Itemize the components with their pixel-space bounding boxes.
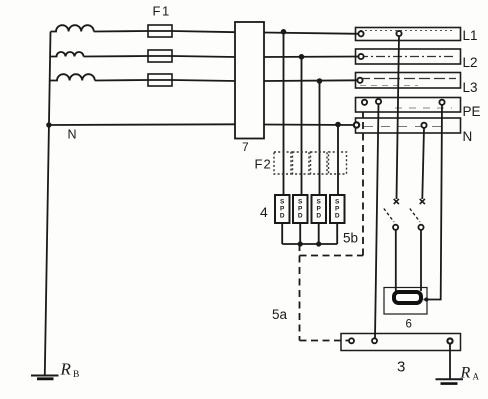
fuse F1a bbox=[148, 25, 172, 37]
svg-text:L1: L1 bbox=[463, 28, 478, 43]
svg-text:S: S bbox=[298, 199, 303, 206]
switch 1 terminal circle bbox=[393, 225, 398, 230]
wire bar3 to RA earth bbox=[449, 344, 451, 379]
wire drop N to SPD4 bbox=[337, 125, 339, 196]
wire phase2 bbox=[84, 56, 237, 57]
wire phase1 block7 to busbar L1 bbox=[263, 33, 360, 34]
junction dot bus/5a bbox=[298, 241, 303, 246]
wire neutral from star point bbox=[49, 123, 236, 126]
junction dot on L2 bbox=[299, 54, 305, 60]
svg-text:P: P bbox=[298, 206, 303, 213]
busbar L3 bbox=[356, 73, 461, 89]
svg-text:5b: 5b bbox=[343, 231, 358, 246]
terminal circle PE 3 bbox=[439, 100, 444, 105]
svg-text:N: N bbox=[463, 129, 473, 144]
wire neutral block7 to busbar N bbox=[263, 124, 355, 127]
svg-text:F2: F2 bbox=[255, 157, 272, 172]
svg-text:P: P bbox=[335, 206, 340, 213]
wire SPD1 to common bus bbox=[281, 223, 283, 244]
wire switch 1 to element 6 bbox=[395, 230, 397, 291]
switch 1 blade (dashed) bbox=[384, 209, 394, 223]
fuse F2a (dotted) bbox=[274, 152, 291, 174]
wire SPD4 to common bus bbox=[336, 223, 338, 244]
switch 1 fixed contact (x) bbox=[394, 199, 399, 204]
busbar L2 bbox=[356, 49, 461, 64]
svg-text:L2: L2 bbox=[463, 55, 478, 70]
svg-text:P: P bbox=[317, 206, 322, 213]
terminal circle PE 2 bbox=[376, 99, 381, 104]
winding W2 (phase 2 coil) bbox=[50, 52, 84, 57]
terminal circle PE 1 bbox=[362, 100, 367, 105]
terminal circle bar3 left bbox=[349, 338, 354, 343]
fuse F2c (dotted) bbox=[311, 152, 328, 174]
SPD 2 bbox=[293, 195, 308, 223]
block 7 (main distribution board) bbox=[235, 22, 264, 139]
wire SPD3 to common bus bbox=[318, 223, 320, 244]
ground RA bbox=[436, 379, 464, 383]
fuse F2b (dotted) bbox=[293, 152, 310, 174]
svg-text:B: B bbox=[73, 370, 79, 380]
ground RB bbox=[31, 376, 59, 379]
switch 2 fixed contact (x) bbox=[420, 199, 425, 204]
busbar L1 bbox=[356, 28, 461, 41]
svg-text:PE: PE bbox=[463, 104, 481, 119]
wire phase3 bbox=[95, 80, 236, 81]
svg-text:D: D bbox=[335, 213, 340, 220]
svg-text:S: S bbox=[335, 199, 340, 206]
SPD 1 bbox=[275, 195, 290, 223]
wire 5a dashed horizontal to bar 3 bbox=[300, 340, 349, 342]
svg-text:A: A bbox=[473, 372, 480, 382]
wire PE terminal 3 to box 6 bbox=[424, 105, 443, 300]
wire L1 terminal down to switch 1 bbox=[397, 36, 400, 199]
box 6 outline bbox=[384, 288, 427, 315]
busbar N bbox=[356, 118, 461, 133]
SPD 3 bbox=[312, 195, 327, 223]
terminal circle bar3 mid bbox=[372, 338, 377, 343]
svg-text:S: S bbox=[280, 199, 285, 206]
wire SPD2 to common bus bbox=[299, 223, 301, 244]
svg-text:R: R bbox=[460, 365, 471, 382]
fuse F1c bbox=[148, 74, 172, 86]
terminal circle L1 mid bbox=[396, 31, 401, 36]
wire drop L3 to SPD3 bbox=[319, 81, 321, 196]
wire PE terminal 2 to bar 3 bbox=[375, 104, 379, 339]
svg-text:L3: L3 bbox=[463, 80, 478, 95]
wire drop L1 to SPD1 bbox=[283, 32, 285, 196]
junction dot bus SPD3 bbox=[316, 241, 321, 246]
terminal circle L3 left bbox=[357, 78, 362, 83]
junction dot star point N bbox=[46, 122, 51, 127]
svg-text:D: D bbox=[280, 213, 285, 220]
earthing bar 3 bbox=[341, 334, 461, 351]
svg-text:S: S bbox=[317, 199, 322, 206]
terminal circle N left bbox=[354, 122, 359, 127]
svg-text:D: D bbox=[316, 213, 321, 220]
switch 2 terminal circle bbox=[418, 225, 423, 230]
svg-text:4: 4 bbox=[260, 204, 268, 220]
svg-text:P: P bbox=[280, 206, 285, 213]
svg-text:N: N bbox=[68, 128, 77, 142]
wire 5b dashed vertical to PE busbar bbox=[362, 112, 364, 256]
wire 5a dashed vertical bbox=[299, 244, 301, 341]
wire switch 2 to element 6 bbox=[420, 230, 422, 291]
terminal circle L2 left bbox=[358, 54, 363, 59]
wire 5b dashed horizontal bbox=[300, 255, 364, 257]
SPD 4 bbox=[330, 195, 345, 223]
wire phase1 bbox=[94, 31, 236, 32]
junction dot on L3 bbox=[317, 78, 323, 84]
svg-text:5a: 5a bbox=[272, 307, 288, 322]
svg-text:7: 7 bbox=[242, 140, 249, 154]
junction dot on L1 bbox=[281, 29, 287, 35]
fuse F1b bbox=[148, 50, 172, 62]
junction dot on N bbox=[335, 122, 341, 128]
svg-text:R: R bbox=[60, 360, 72, 379]
junction dot at box 6 right bbox=[424, 297, 428, 301]
element 6 (bold body) bbox=[394, 292, 421, 303]
wire phase3 block7 to busbar L3 bbox=[263, 79, 358, 82]
svg-text:6: 6 bbox=[406, 319, 412, 331]
switch 2 blade (dashed) bbox=[410, 209, 420, 223]
wire N terminal down to switch 2 bbox=[422, 128, 424, 199]
busbar PE bbox=[356, 98, 461, 113]
wire: left vertical line (transformer star point to RB earth) bbox=[45, 32, 51, 375]
wire SPD common bus bbox=[282, 243, 337, 245]
winding W1 (phase 1 coil) bbox=[51, 25, 94, 31]
terminal circle N mid bbox=[421, 123, 426, 128]
svg-text:F1: F1 bbox=[153, 4, 171, 19]
fuse F2d (dotted) bbox=[329, 152, 347, 174]
svg-text:3: 3 bbox=[397, 359, 405, 376]
wire drop L2 to SPD2 bbox=[301, 57, 303, 196]
terminal circle bar3 right bbox=[447, 338, 452, 343]
wire phase2 block7 to busbar L2 bbox=[263, 56, 360, 59]
terminal circle L1 left bbox=[358, 31, 363, 36]
winding W3 (phase 3 coil) bbox=[50, 74, 95, 80]
svg-text:D: D bbox=[298, 213, 303, 220]
